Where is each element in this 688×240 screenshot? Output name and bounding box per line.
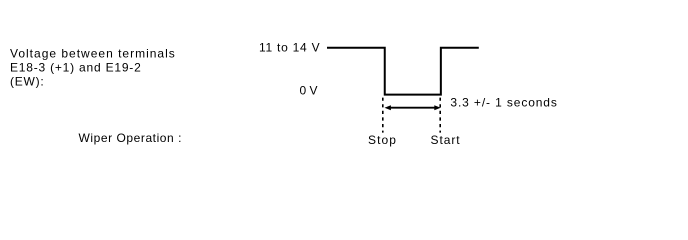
node: duration arrow shaft [389,107,436,109]
svg-text:(EW):: (EW): [10,75,44,89]
wire: right dashed extension line (Start) [439,98,441,133]
svg-text:E18-3 (+1) and E19-2: E18-3 (+1) and E19-2 [10,61,142,75]
svg-text:0 V: 0 V [300,84,318,98]
svg-text:Voltage between terminals: Voltage between terminals [10,47,176,61]
svg-text:Start: Start [431,133,461,147]
node: duration arrow right head [434,105,440,110]
svg-text:3.3 +/- 1 seconds: 3.3 +/- 1 seconds [450,96,557,110]
node: duration arrow left head [385,105,391,110]
svg-text:Stop: Stop [368,133,397,147]
wire: waveform trace (high-low-high pulse) [327,48,479,95]
svg-text:Wiper Operation :: Wiper Operation : [79,131,183,145]
wire: left dashed extension line (Stop) [382,98,384,133]
svg-text:11 to 14 V: 11 to 14 V [259,41,320,55]
